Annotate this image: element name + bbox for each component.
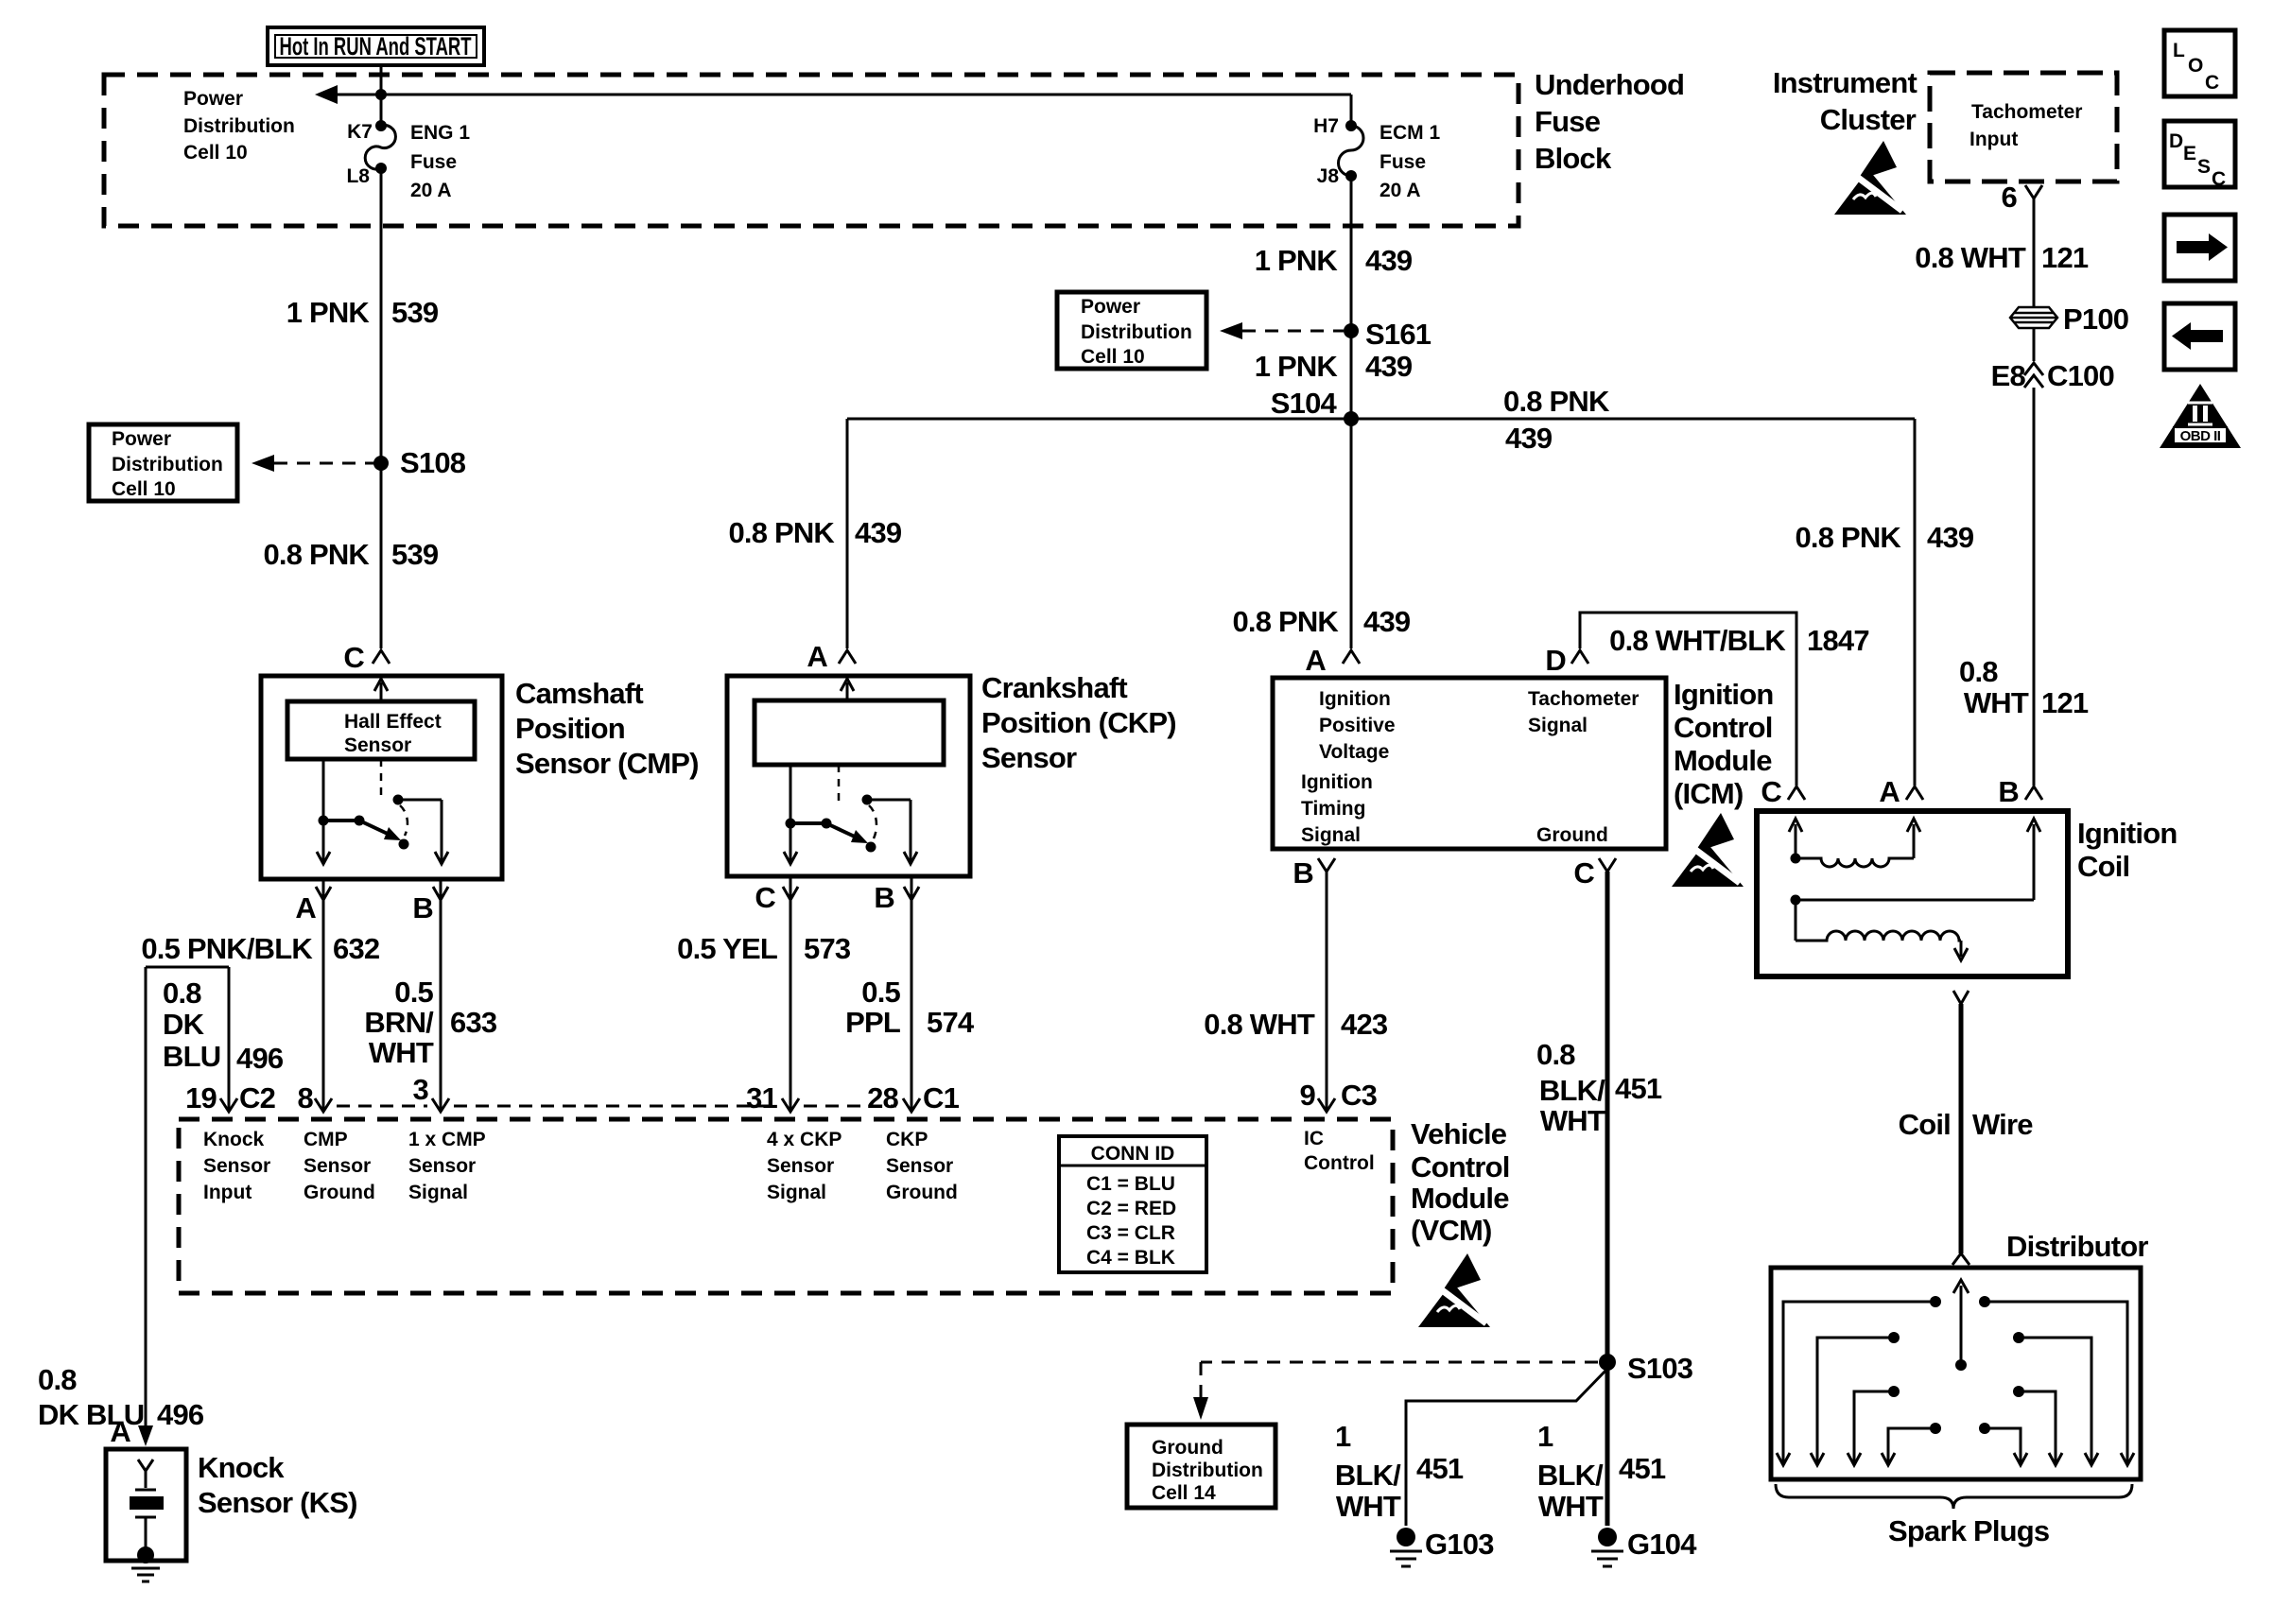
svg-text:Ignition: Ignition	[1319, 688, 1391, 710]
svg-text:Instrument: Instrument	[1773, 66, 1917, 99]
svg-text:L: L	[2173, 40, 2185, 61]
svg-text:L8: L8	[346, 165, 370, 187]
svg-text:451: 451	[1416, 1452, 1464, 1485]
svg-text:OBD II: OBD II	[2180, 428, 2221, 444]
svg-text:1 PNK: 1 PNK	[1255, 244, 1339, 277]
svg-text:Block: Block	[1535, 142, 1612, 175]
svg-text:BLK/: BLK/	[1537, 1459, 1604, 1492]
svg-text:Coil: Coil	[1899, 1108, 1951, 1141]
wire distributor terminal 8 to spark plug	[1979, 1423, 1990, 1434]
svg-text:ECM 1: ECM 1	[1379, 122, 1441, 144]
svg-text:B: B	[1998, 775, 2019, 808]
svg-text:Signal: Signal	[1528, 715, 1588, 736]
svg-text:C1 = BLU: C1 = BLU	[1086, 1173, 1175, 1195]
svg-text:539: 539	[391, 538, 439, 571]
svg-text:Ignition: Ignition	[2077, 817, 2178, 850]
svg-text:Ground: Ground	[886, 1182, 958, 1203]
switch contacts (CKP)	[789, 765, 792, 862]
wire 539 from fuse down to CMP	[380, 168, 383, 648]
wire knock sensor input loop	[138, 967, 229, 1446]
svg-text:Input: Input	[203, 1182, 252, 1203]
svg-text:A: A	[110, 1415, 130, 1448]
svg-text:0.8: 0.8	[38, 1363, 77, 1396]
svg-text:121: 121	[2041, 686, 2089, 719]
wire 121 down to coil B	[2033, 388, 2036, 786]
svg-text:C3 = CLR: C3 = CLR	[1086, 1222, 1175, 1244]
svg-text:Distribution: Distribution	[1152, 1460, 1263, 1481]
svg-text:Distributor: Distributor	[2006, 1230, 2148, 1263]
ESD symbol (instrument cluster)	[1834, 141, 1906, 215]
component CMP sensor box	[261, 676, 502, 879]
svg-text:121: 121	[2041, 241, 2089, 274]
node Ignition Coil	[1757, 775, 2178, 976]
svg-text:20 A: 20 A	[1379, 180, 1421, 201]
svg-text:Fuse: Fuse	[1535, 105, 1601, 138]
ground G104	[1591, 1528, 1697, 1566]
svg-text:0.8 WHT: 0.8 WHT	[1204, 1008, 1315, 1041]
connector E8 C100	[1991, 359, 2114, 392]
ground G103	[1390, 1528, 1494, 1566]
svg-text:A: A	[807, 640, 827, 673]
wire ICM C ground down to S103/G104	[1605, 872, 1610, 1526]
svg-text:1: 1	[1335, 1420, 1351, 1453]
component CKP sensing element	[755, 700, 944, 765]
svg-text:C100: C100	[2047, 359, 2114, 392]
svg-text:A: A	[295, 891, 316, 924]
wire ICM D to coil C (1847)	[1580, 613, 1796, 786]
svg-text:Sensor (CMP): Sensor (CMP)	[515, 747, 699, 780]
node legend DESC box	[2164, 121, 2235, 190]
svg-text:20 A: 20 A	[410, 180, 452, 201]
svg-text:Sensor: Sensor	[203, 1155, 270, 1177]
svg-text:0.5: 0.5	[861, 976, 900, 1009]
svg-text:BLK/: BLK/	[1539, 1074, 1605, 1107]
svg-text:C3: C3	[1341, 1079, 1378, 1112]
node Camshaft Position Sensor (CMP)	[261, 641, 699, 924]
svg-text:451: 451	[1619, 1452, 1666, 1485]
svg-text:439: 439	[1505, 422, 1553, 455]
svg-text:1 PNK: 1 PNK	[1255, 350, 1339, 383]
svg-text:Ground: Ground	[1152, 1437, 1223, 1459]
node CONN ID table	[1059, 1136, 1206, 1272]
ESD symbol (VCM)	[1418, 1253, 1490, 1327]
node Distributor	[1771, 1230, 2148, 1479]
wire dashed control (CMP switch)	[380, 759, 383, 799]
node legend LOC box	[2164, 30, 2235, 96]
svg-text:Distribution: Distribution	[1081, 321, 1192, 343]
svg-text:Module: Module	[1674, 744, 1772, 777]
svg-text:Input: Input	[1969, 129, 2018, 150]
node Ground Distribution Cell 14 box	[1127, 1425, 1275, 1508]
node Crankshaft Position Sensor (CKP)	[727, 640, 1176, 914]
node Power Distribution Cell 10 box (left)	[89, 424, 237, 501]
svg-text:8: 8	[298, 1081, 314, 1114]
svg-text:0.8 PNK: 0.8 PNK	[728, 516, 835, 549]
svg-text:C4 = BLK: C4 = BLK	[1086, 1247, 1175, 1269]
svg-text:439: 439	[1927, 521, 1974, 554]
svg-text:C: C	[1761, 775, 1781, 808]
svg-text:PPL: PPL	[845, 1006, 900, 1039]
ESD symbol (ICM)	[1672, 813, 1744, 887]
svg-text:439: 439	[1363, 605, 1411, 638]
svg-text:S108: S108	[400, 446, 466, 479]
svg-text:B: B	[1293, 856, 1313, 890]
svg-text:Control: Control	[1304, 1152, 1375, 1174]
svg-text:BLK/: BLK/	[1335, 1459, 1401, 1492]
svg-text:633: 633	[450, 1006, 497, 1039]
svg-text:WHT: WHT	[1964, 686, 2029, 719]
node Power Distribution Cell 10 box (middle)	[1057, 292, 1206, 369]
svg-text:Cell 14: Cell 14	[1152, 1482, 1216, 1504]
wire distributor terminal 4 to spark plug	[1930, 1423, 1941, 1434]
component distributor box	[1771, 1268, 2141, 1479]
wire distributor terminal 2 to spark plug	[1888, 1332, 1900, 1343]
svg-text:Sensor: Sensor	[304, 1155, 371, 1177]
coil secondary winding	[1795, 900, 1797, 941]
wire CKP B to VCM 28	[911, 876, 913, 1112]
svg-text:Tachometer: Tachometer	[1528, 688, 1639, 710]
svg-text:Coil: Coil	[2077, 850, 2129, 883]
svg-text:Ground: Ground	[304, 1182, 375, 1203]
fuse ENG 1 K7/L8	[346, 95, 470, 201]
node S161 splice	[1344, 323, 1359, 338]
svg-text:Power: Power	[112, 428, 171, 450]
wire down to CKP A	[846, 419, 849, 648]
wire S104 horizontal bus	[847, 418, 1915, 421]
svg-text:Hall Effect: Hall Effect	[344, 711, 442, 733]
svg-text:S: S	[2197, 156, 2211, 178]
ground (knock sensor case)	[137, 1546, 154, 1564]
node S103 splice	[1599, 1354, 1616, 1371]
pin receptacle inside knock sensor	[138, 1460, 153, 1471]
svg-text:Sensor: Sensor	[981, 741, 1077, 774]
svg-text:Power: Power	[183, 88, 243, 110]
svg-text:(ICM): (ICM)	[1674, 777, 1743, 810]
svg-text:WHT: WHT	[1538, 1490, 1604, 1523]
svg-text:CONN ID: CONN ID	[1091, 1143, 1175, 1165]
svg-text:C: C	[2212, 168, 2226, 190]
svg-text:(VCM): (VCM)	[1411, 1214, 1492, 1247]
svg-text:J8: J8	[1317, 165, 1340, 187]
svg-text:A: A	[1305, 644, 1326, 677]
svg-text:0.8: 0.8	[163, 976, 201, 1010]
svg-text:Signal: Signal	[408, 1182, 468, 1203]
svg-text:0.8: 0.8	[1536, 1038, 1575, 1071]
svg-text:WHT: WHT	[1540, 1104, 1605, 1137]
svg-text:Ignition: Ignition	[1674, 678, 1774, 711]
wire CKP C to VCM 31	[789, 876, 792, 1112]
svg-text:C: C	[2205, 72, 2219, 94]
svg-text:B: B	[874, 881, 894, 914]
svg-text:O: O	[2188, 55, 2203, 77]
svg-text:573: 573	[804, 932, 851, 965]
pin input of distributor	[1952, 1253, 1969, 1265]
svg-text:Control: Control	[1411, 1150, 1510, 1183]
svg-text:C: C	[755, 881, 775, 914]
svg-text:423: 423	[1341, 1008, 1388, 1041]
svg-text:IC: IC	[1304, 1128, 1324, 1149]
svg-text:Spark Plugs: Spark Plugs	[1888, 1514, 2049, 1547]
svg-text:WHT: WHT	[1336, 1490, 1401, 1523]
svg-text:E: E	[2183, 143, 2196, 164]
node Vehicle Control Module (VCM) dashed box	[179, 1119, 1393, 1293]
svg-text:0.5 PNK/BLK: 0.5 PNK/BLK	[141, 932, 313, 965]
svg-text:632: 632	[333, 932, 379, 965]
wire distributor terminal 7 to spark plug	[2013, 1386, 2024, 1397]
svg-text:Tachometer: Tachometer	[1971, 101, 2082, 123]
svg-text:BRN/: BRN/	[364, 1006, 434, 1039]
node Underhood Fuse Block dashed box	[104, 75, 1518, 226]
node legend right-arrow box	[2164, 215, 2235, 281]
svg-text:Hot In RUN And START: Hot In RUN And START	[280, 32, 472, 60]
svg-text:28: 28	[867, 1081, 898, 1114]
svg-text:539: 539	[391, 296, 439, 329]
wire hall sensor output arrow	[380, 682, 383, 701]
wire dashed arrow S161 to Power Distribution	[1242, 330, 1344, 333]
node Spark Plugs brace	[1776, 1484, 2132, 1509]
svg-text:Sensor: Sensor	[344, 734, 411, 756]
svg-text:Fuse: Fuse	[1379, 151, 1426, 173]
svg-text:0.8 WHT/BLK: 0.8 WHT/BLK	[1609, 624, 1786, 657]
svg-text:Power: Power	[1081, 296, 1140, 318]
svg-text:Camshaft: Camshaft	[515, 677, 643, 710]
svg-text:DK: DK	[163, 1008, 205, 1041]
svg-text:6: 6	[2002, 181, 2018, 214]
svg-text:C: C	[1573, 856, 1594, 890]
svg-text:K7: K7	[347, 121, 373, 143]
wire ICM B to VCM 9	[1326, 872, 1328, 1112]
svg-text:574: 574	[927, 1006, 975, 1039]
svg-text:1847: 1847	[1807, 624, 1869, 657]
svg-text:Underhood: Underhood	[1535, 68, 1684, 101]
distributor rotor arrow	[1955, 1359, 1967, 1371]
svg-text:0.5 YEL: 0.5 YEL	[677, 932, 777, 965]
svg-text:Signal: Signal	[1301, 824, 1361, 846]
svg-text:Ignition: Ignition	[1301, 771, 1373, 793]
node Tachometer Input dashed box	[1930, 73, 2117, 181]
svg-text:B: B	[412, 891, 433, 924]
svg-text:31: 31	[746, 1081, 777, 1114]
svg-text:H7: H7	[1313, 115, 1339, 137]
coil internal junction	[1791, 895, 1801, 906]
svg-text:Distribution: Distribution	[183, 115, 295, 137]
svg-text:G103: G103	[1425, 1528, 1494, 1561]
svg-text:4 x CKP: 4 x CKP	[767, 1129, 842, 1150]
svg-text:496: 496	[236, 1042, 284, 1075]
wire down to coil A	[1914, 419, 1917, 786]
wire S103 to G103	[1406, 1369, 1607, 1526]
wire distributor terminal 1 to spark plug	[1930, 1296, 1941, 1307]
svg-text:Timing: Timing	[1301, 798, 1365, 820]
svg-text:S161: S161	[1365, 318, 1431, 351]
wire CMP B to VCM 3	[440, 879, 442, 1112]
svg-text:BLU: BLU	[163, 1040, 220, 1073]
svg-text:P100: P100	[2063, 302, 2128, 336]
svg-text:496: 496	[157, 1398, 204, 1431]
svg-text:Sensor: Sensor	[408, 1155, 476, 1177]
wire from Hot box down to junction	[380, 65, 383, 95]
svg-text:G104: G104	[1627, 1528, 1697, 1561]
svg-text:0.8 PNK: 0.8 PNK	[1795, 521, 1901, 554]
svg-text:451: 451	[1615, 1072, 1662, 1105]
node legend OBD II triangle	[2160, 384, 2241, 448]
svg-text:Sensor: Sensor	[767, 1155, 834, 1177]
wire coil secondary output	[1953, 991, 1969, 1004]
component knock sensor box	[106, 1449, 186, 1561]
svg-text:1 x CMP: 1 x CMP	[408, 1129, 486, 1150]
svg-text:Fuse: Fuse	[410, 151, 457, 173]
svg-text:Position (CKP): Position (CKP)	[981, 706, 1176, 739]
svg-text:Sensor: Sensor	[886, 1155, 953, 1177]
svg-text:Wire: Wire	[1972, 1108, 2033, 1141]
svg-text:S103: S103	[1627, 1352, 1693, 1385]
svg-text:CKP: CKP	[886, 1129, 928, 1150]
switch contacts (CMP)	[322, 759, 325, 862]
node Hot In RUN And START box	[268, 27, 484, 65]
wire 439 ECM fuse down to ICM	[1350, 176, 1353, 648]
svg-text:Distribution: Distribution	[112, 454, 223, 475]
svg-text:Cell 10: Cell 10	[183, 142, 248, 164]
wire distributor terminal 5 to spark plug	[1979, 1296, 1990, 1307]
svg-text:0.8 PNK: 0.8 PNK	[1503, 385, 1610, 418]
svg-text:Crankshaft: Crankshaft	[981, 671, 1127, 704]
svg-text:WHT: WHT	[369, 1036, 434, 1069]
svg-text:1: 1	[1537, 1420, 1553, 1453]
svg-text:0.5: 0.5	[394, 976, 433, 1009]
svg-text:Cell 10: Cell 10	[1081, 346, 1145, 368]
wire CMP A to VCM 8	[322, 879, 325, 1112]
svg-text:Knock: Knock	[203, 1129, 265, 1150]
svg-text:9: 9	[1300, 1079, 1316, 1112]
svg-text:3: 3	[413, 1073, 429, 1106]
wire dashed arrow S108 to Power Distribution	[274, 462, 374, 465]
ground (knock sensor)	[131, 1567, 160, 1570]
node legend left-arrow box	[2164, 303, 2235, 370]
connector P100	[2010, 302, 2128, 336]
svg-text:Position: Position	[515, 712, 625, 745]
svg-text:Signal: Signal	[767, 1182, 826, 1203]
wire distributor terminal 6 to spark plug	[2013, 1332, 2024, 1343]
svg-text:C2: C2	[239, 1081, 275, 1114]
svg-text:S104: S104	[1271, 387, 1338, 420]
coil primary winding	[1795, 824, 1797, 858]
svg-text:A: A	[1879, 775, 1900, 808]
svg-text:Vehicle: Vehicle	[1411, 1117, 1507, 1150]
knock sensor piezo element	[130, 1496, 164, 1510]
wire distributor terminal 3 to spark plug	[1888, 1386, 1900, 1397]
wire dashed control (CKP switch)	[838, 765, 841, 802]
svg-text:439: 439	[1365, 350, 1413, 383]
svg-text:0.8 PNK: 0.8 PNK	[1232, 605, 1339, 638]
svg-text:D: D	[1545, 644, 1566, 677]
svg-text:Cluster: Cluster	[1820, 103, 1917, 136]
wire sensor output arrow (CKP)	[846, 682, 849, 700]
svg-text:0.8 PNK: 0.8 PNK	[263, 538, 370, 571]
wire horizontal feed line with left arrow	[325, 94, 1351, 96]
wire dashed from S103 to ground distribution arrow	[1201, 1361, 1598, 1364]
svg-text:0.8 WHT: 0.8 WHT	[1915, 241, 2026, 274]
wire 121 from tach down	[2033, 199, 2036, 306]
svg-text:CMP: CMP	[304, 1129, 348, 1150]
svg-text:0.8: 0.8	[1959, 655, 1998, 688]
svg-text:19: 19	[185, 1081, 217, 1114]
svg-text:ENG 1: ENG 1	[410, 122, 470, 144]
component ignition coil box	[1757, 811, 2068, 976]
svg-text:Control: Control	[1674, 711, 1773, 744]
svg-text:439: 439	[855, 516, 902, 549]
svg-text:Ground: Ground	[1536, 824, 1608, 846]
svg-text:Positive: Positive	[1319, 715, 1396, 736]
svg-text:1 PNK: 1 PNK	[286, 296, 371, 329]
component CKP sensor box	[727, 676, 970, 876]
svg-text:Knock: Knock	[198, 1451, 285, 1484]
svg-text:C: C	[343, 641, 364, 674]
svg-text:C1: C1	[923, 1081, 960, 1114]
svg-text:E8: E8	[1991, 359, 2026, 392]
component ICM box	[1273, 678, 1666, 849]
svg-text:Voltage: Voltage	[1319, 741, 1389, 763]
wire thin dashed connector bus	[337, 1105, 427, 1108]
node Ignition Control Module (ICM)	[1273, 644, 1774, 890]
svg-text:D: D	[2169, 130, 2183, 152]
node Knock Sensor (KS)	[106, 1449, 357, 1581]
svg-text:439: 439	[1365, 244, 1413, 277]
fuse ECM 1 H7/J8	[1313, 95, 1440, 201]
node S108 splice	[373, 456, 389, 471]
svg-text:Module: Module	[1411, 1182, 1509, 1215]
svg-text:Cell 10: Cell 10	[112, 478, 176, 500]
svg-text:C2 = RED: C2 = RED	[1086, 1198, 1176, 1219]
component Hall Effect Sensor	[287, 701, 475, 759]
svg-text:Sensor (KS): Sensor (KS)	[198, 1486, 357, 1519]
